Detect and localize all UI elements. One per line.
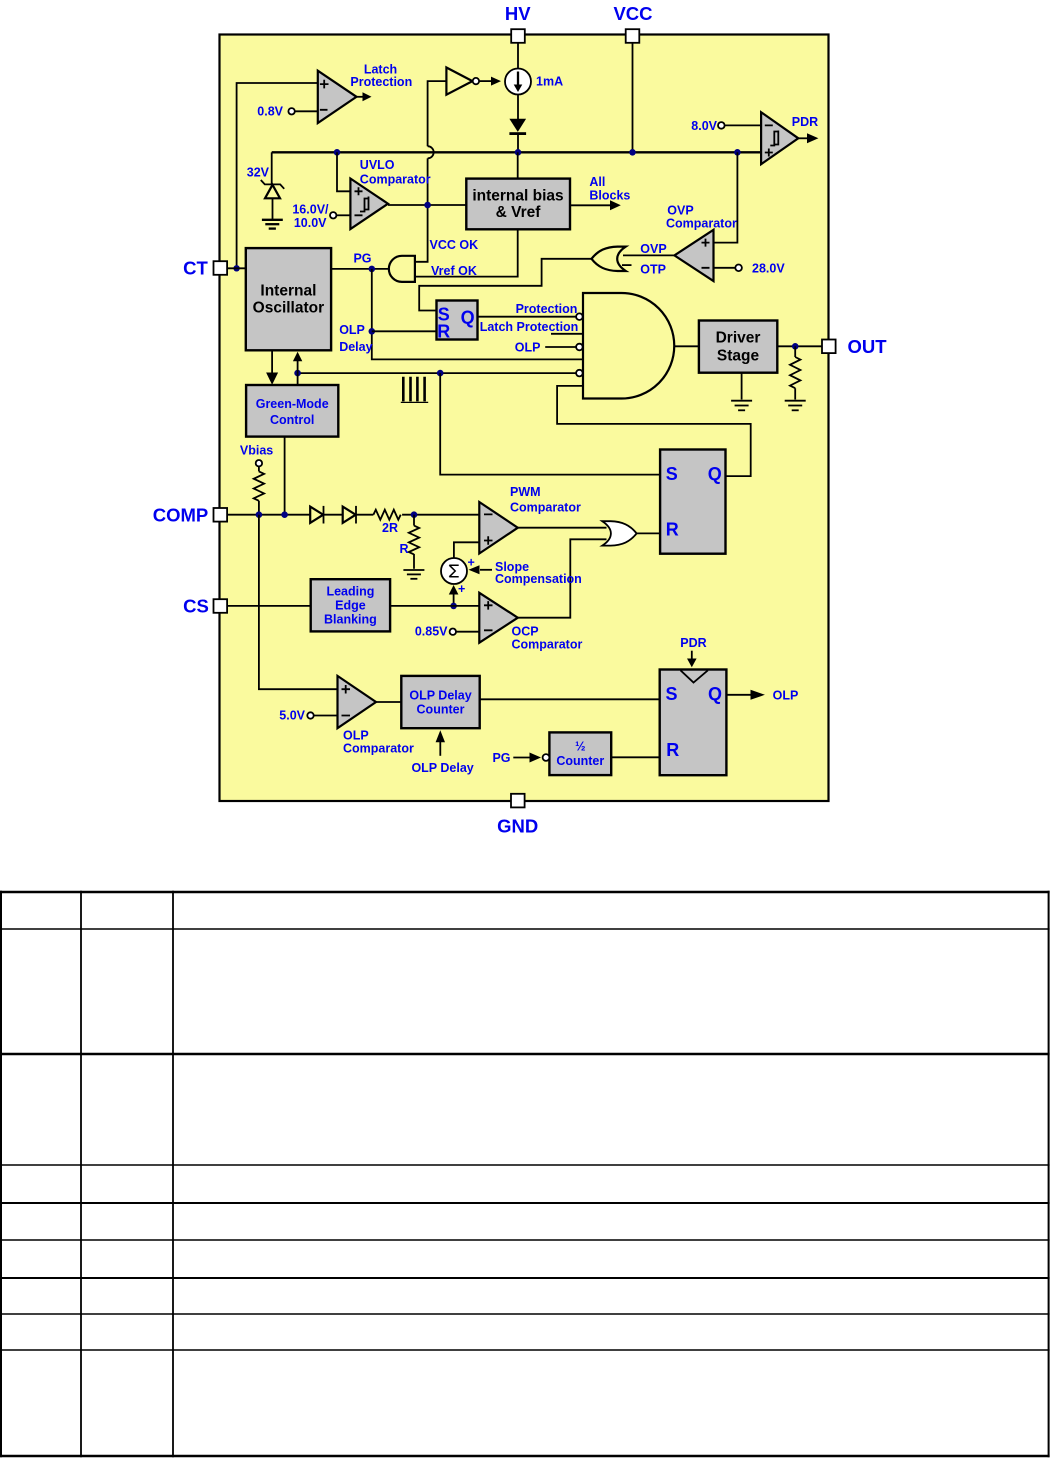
svg-text:UVLO: UVLO <box>360 158 395 172</box>
node CS-sigma <box>450 603 457 610</box>
ground below zener <box>262 220 283 229</box>
svg-text:OCP: OCP <box>512 625 539 639</box>
wire OTP stub <box>622 264 632 266</box>
node COMP-vbias <box>256 511 263 518</box>
oscillator ramp comb symbol <box>401 377 428 403</box>
bubble OLP input <box>576 344 583 351</box>
svg-text:Control: Control <box>270 413 314 427</box>
wire gate to driver <box>674 345 699 347</box>
node rail-VCC <box>629 149 636 156</box>
block Leading Edge Blanking <box>311 579 390 631</box>
node PG <box>369 266 376 273</box>
wire OLP delay to SR1 R input <box>372 330 437 332</box>
svg-text:OLP Delay: OLP Delay <box>411 761 473 775</box>
flip-flop SR1 <box>437 301 478 342</box>
svg-text:32V: 32V <box>247 166 270 180</box>
svg-text:COMP: COMP <box>153 505 209 526</box>
reference 8.0V input <box>691 119 761 133</box>
node UVLO output / VCC OK <box>424 202 431 209</box>
resistor R <box>399 515 419 569</box>
wire COMP down to OLP comparator <box>259 515 338 690</box>
svg-text:+: + <box>468 556 475 570</box>
svg-text:Latch Protection: Latch Protection <box>480 320 579 334</box>
node COMP-greenmode <box>281 511 288 518</box>
flip-flop SR3 (OLP latch) <box>660 670 727 776</box>
current source 1mA <box>505 69 563 95</box>
AND gate main PWM <box>583 293 674 399</box>
node CT junction <box>233 265 239 271</box>
svg-text:Comparator: Comparator <box>666 216 737 230</box>
svg-text:R: R <box>666 740 679 760</box>
svg-text:Protection: Protection <box>350 75 412 89</box>
wire oscillator to green-mode (down arrow) <box>266 350 278 385</box>
source Vbias <box>256 460 262 466</box>
svg-text:CT: CT <box>183 258 208 279</box>
svg-text:0.85V: 0.85V <box>415 625 448 639</box>
wire SR3 Q output OLP arrow <box>726 688 798 702</box>
wire green-mode to oscillator (up arrow) <box>293 352 302 373</box>
svg-text:& Vref: & Vref <box>496 204 542 221</box>
wire OR2 to SR2 R <box>637 532 661 534</box>
wire Latch Protection stub <box>551 333 583 335</box>
reference 0.8V input <box>257 105 318 119</box>
svg-text:8.0V: 8.0V <box>691 119 717 133</box>
node rail-HV <box>515 149 522 156</box>
wire half counter to SR3 R <box>611 756 660 758</box>
reference 16.0V/10.0V input <box>292 203 350 230</box>
IC body outline (yellow block) <box>220 35 829 802</box>
wire ramp node to green-mode box <box>297 373 299 385</box>
svg-text:PG: PG <box>353 251 371 265</box>
resistor R-vbias <box>254 466 264 514</box>
pin HV <box>505 3 531 43</box>
label PDR (latch set) <box>680 636 706 668</box>
svg-text:2R: 2R <box>382 521 398 535</box>
svg-text:PG: PG <box>492 751 510 765</box>
svg-text:S: S <box>666 464 678 484</box>
svg-text:Green-Mode: Green-Mode <box>256 397 329 411</box>
reference 28.0V input <box>714 261 786 275</box>
svg-text:0.8V: 0.8V <box>257 105 283 119</box>
wire CS branch up arrow to sigma <box>449 585 459 606</box>
wire PDR output arrow <box>798 133 818 143</box>
op-amp OCP comparator <box>479 593 518 643</box>
svg-text:Comparator: Comparator <box>360 172 431 186</box>
wire SR1 Q to gate (Protection) <box>478 316 577 318</box>
wire current source to diode <box>517 95 519 120</box>
diode D2 <box>310 506 343 524</box>
op-amp PDR comparator <box>761 112 798 164</box>
wire VCC pin vertical <box>632 43 634 153</box>
wire PG vertical with OLP-delay branch <box>372 269 583 360</box>
wire CT pin to oscillator <box>227 267 246 269</box>
node rail-PDR <box>734 149 741 156</box>
svg-text:OUT: OUT <box>847 336 887 357</box>
wire green-mode to COMP line <box>284 437 286 515</box>
svg-text:OLP Delay: OLP Delay <box>409 689 471 703</box>
wire Vref OK from bias box to AND gate <box>415 229 518 276</box>
wire CS to LEB <box>227 605 311 607</box>
ground below driver <box>731 401 752 411</box>
svg-text:Vref OK: Vref OK <box>431 264 477 278</box>
svg-text:R: R <box>666 519 679 539</box>
svg-text:Oscillator: Oscillator <box>253 299 325 316</box>
resistor R-out <box>790 346 800 399</box>
flip-flop SR2 (PWM latch) <box>660 450 725 554</box>
svg-text:Comparator: Comparator <box>512 638 583 652</box>
svg-text:Compensation: Compensation <box>495 572 582 586</box>
svg-text:Comparator: Comparator <box>343 742 414 756</box>
svg-text:OLP: OLP <box>343 729 369 743</box>
wire rail to UVLO plus <box>337 152 350 191</box>
pin COMP <box>153 505 227 526</box>
diode D1 <box>509 119 526 153</box>
pin description table grid <box>0 891 1050 1457</box>
wire OCP route to OR2 <box>518 539 607 617</box>
wire PG gate output to oscillator <box>331 268 389 270</box>
wire All Blocks arrow <box>570 175 630 211</box>
svg-text:+: + <box>458 582 465 596</box>
bubble protection input <box>576 313 583 320</box>
svg-text:Vbias: Vbias <box>240 444 273 458</box>
OR gate OR2 <box>602 521 636 545</box>
svg-text:Internal: Internal <box>260 282 316 299</box>
inverter U-inv <box>446 68 479 95</box>
block Driver Stage <box>699 321 777 373</box>
wire rail to bias box <box>517 152 519 178</box>
svg-text:10.0V: 10.0V <box>294 216 327 230</box>
pin CT <box>183 258 227 279</box>
wire ramp line to gate <box>298 372 577 374</box>
wire OR1 output to SR1 S input <box>419 259 591 311</box>
wire OLP stub <box>545 346 576 348</box>
reference 5.0V input <box>279 709 337 723</box>
wire OLP comp to delay counter <box>376 701 401 703</box>
wire COMP line <box>227 514 310 516</box>
svg-text:PDR: PDR <box>680 636 706 650</box>
svg-text:internal bias: internal bias <box>472 188 563 205</box>
wire OLP delay arrow input <box>411 730 473 775</box>
svg-text:5.0V: 5.0V <box>279 709 305 723</box>
svg-text:Q: Q <box>461 307 475 327</box>
svg-text:1mA: 1mA <box>536 75 563 89</box>
svg-text:Q: Q <box>708 464 722 484</box>
summer sigma <box>441 558 467 584</box>
OR gate OR1 (mirrored, output left) <box>592 247 626 271</box>
svg-text:Q: Q <box>708 684 722 704</box>
op-amp OLP comparator <box>338 676 377 728</box>
wire PG arrow to half counter <box>492 751 549 765</box>
svg-text:Driver: Driver <box>716 330 761 347</box>
op-amp PWM comparator <box>479 502 518 554</box>
block Internal Oscillator <box>246 248 331 350</box>
svg-text:OLP: OLP <box>339 323 365 337</box>
pin OUT <box>822 336 887 357</box>
pin GND <box>497 794 538 837</box>
svg-text:Comparator: Comparator <box>510 500 581 514</box>
svg-text:OLP: OLP <box>773 688 799 702</box>
block Green-Mode Control <box>246 385 338 437</box>
wire driver ground pin <box>741 373 743 400</box>
op-amp UVLO comparator <box>350 179 388 230</box>
svg-text:Leading: Leading <box>326 585 374 599</box>
diode D3 <box>343 506 374 524</box>
block internal bias & Vref <box>466 179 570 230</box>
bubble ramp input <box>576 370 583 377</box>
svg-text:PDR: PDR <box>792 115 818 129</box>
svg-text:R: R <box>437 321 450 341</box>
wire hop over rail <box>428 146 434 158</box>
svg-text:Counter: Counter <box>417 703 465 717</box>
wire LEB to OCP plus <box>390 605 479 607</box>
block OLP Delay Counter <box>401 676 479 728</box>
op-amp latch protection comparator <box>318 71 357 123</box>
svg-text:Protection: Protection <box>516 302 578 316</box>
svg-text:PWM: PWM <box>510 485 541 499</box>
zener diode Z1 <box>261 152 284 219</box>
wire OVP comparator output <box>623 254 674 256</box>
wire CT to comparator plus <box>237 83 318 268</box>
wire sigma to PWM plus <box>454 542 479 558</box>
svg-text:16.0V/: 16.0V/ <box>292 203 329 217</box>
svg-text:28.0V: 28.0V <box>752 261 785 275</box>
ground below resistor R-out <box>785 401 806 411</box>
svg-text:OLP: OLP <box>515 341 541 355</box>
svg-text:Blocks: Blocks <box>589 188 630 202</box>
node ramp-greenmode <box>294 370 301 377</box>
svg-text:HV: HV <box>505 3 531 24</box>
svg-text:VCC OK: VCC OK <box>430 238 479 252</box>
svg-text:GND: GND <box>497 816 538 837</box>
svg-text:Edge: Edge <box>335 599 366 613</box>
svg-text:R: R <box>399 542 408 556</box>
wire UVLO output <box>388 204 466 206</box>
wire latch comparator output arrow <box>357 96 364 98</box>
wire HV pin to current source <box>517 43 519 69</box>
svg-text:CS: CS <box>183 596 209 617</box>
wire SR2 Q feedback to main gate <box>557 386 751 476</box>
wire delay counter to SR3 S <box>480 698 660 700</box>
wire 2R to PWM minus <box>402 514 479 516</box>
wire main VCC rail <box>272 151 761 153</box>
wire rail branch to OVP plus <box>714 152 738 242</box>
svg-text:Counter: Counter <box>556 754 604 768</box>
pin VCC <box>613 3 652 43</box>
wire slope compensation arrow <box>469 565 493 574</box>
resistor 2R <box>373 510 400 535</box>
svg-text:Stage: Stage <box>717 348 760 365</box>
wire PWM output to OR2 <box>518 527 607 529</box>
node rail-zener <box>334 149 341 156</box>
node 2R-R <box>411 511 418 518</box>
ground below R <box>403 570 424 579</box>
node OUT <box>792 343 799 350</box>
reference 0.85V input <box>415 625 479 639</box>
op-amp OVP comparator (mirrored) <box>674 230 713 281</box>
wire VCC OK vertical to AND gate <box>415 158 428 261</box>
svg-text:S: S <box>665 684 677 704</box>
wire driver to OUT pin <box>777 345 822 347</box>
node OLP delay branch <box>369 328 376 335</box>
AND gate PG (mirrored) <box>389 256 415 282</box>
wire inverter to current source arrow <box>479 80 492 82</box>
block half counter <box>549 732 611 775</box>
svg-text:OTP: OTP <box>640 263 666 277</box>
wire ramp branch to SR2 S <box>440 373 660 475</box>
wire inverter input from VCC-OK net <box>428 81 447 146</box>
node ramp-PWM branch <box>437 370 444 377</box>
pin CS <box>183 596 227 617</box>
svg-text:Delay: Delay <box>339 340 372 354</box>
svg-text:Blanking: Blanking <box>324 613 377 627</box>
svg-text:All: All <box>589 175 605 189</box>
svg-text:OVP: OVP <box>640 242 666 256</box>
svg-text:VCC: VCC <box>613 3 652 24</box>
svg-text:½: ½ <box>575 740 585 754</box>
